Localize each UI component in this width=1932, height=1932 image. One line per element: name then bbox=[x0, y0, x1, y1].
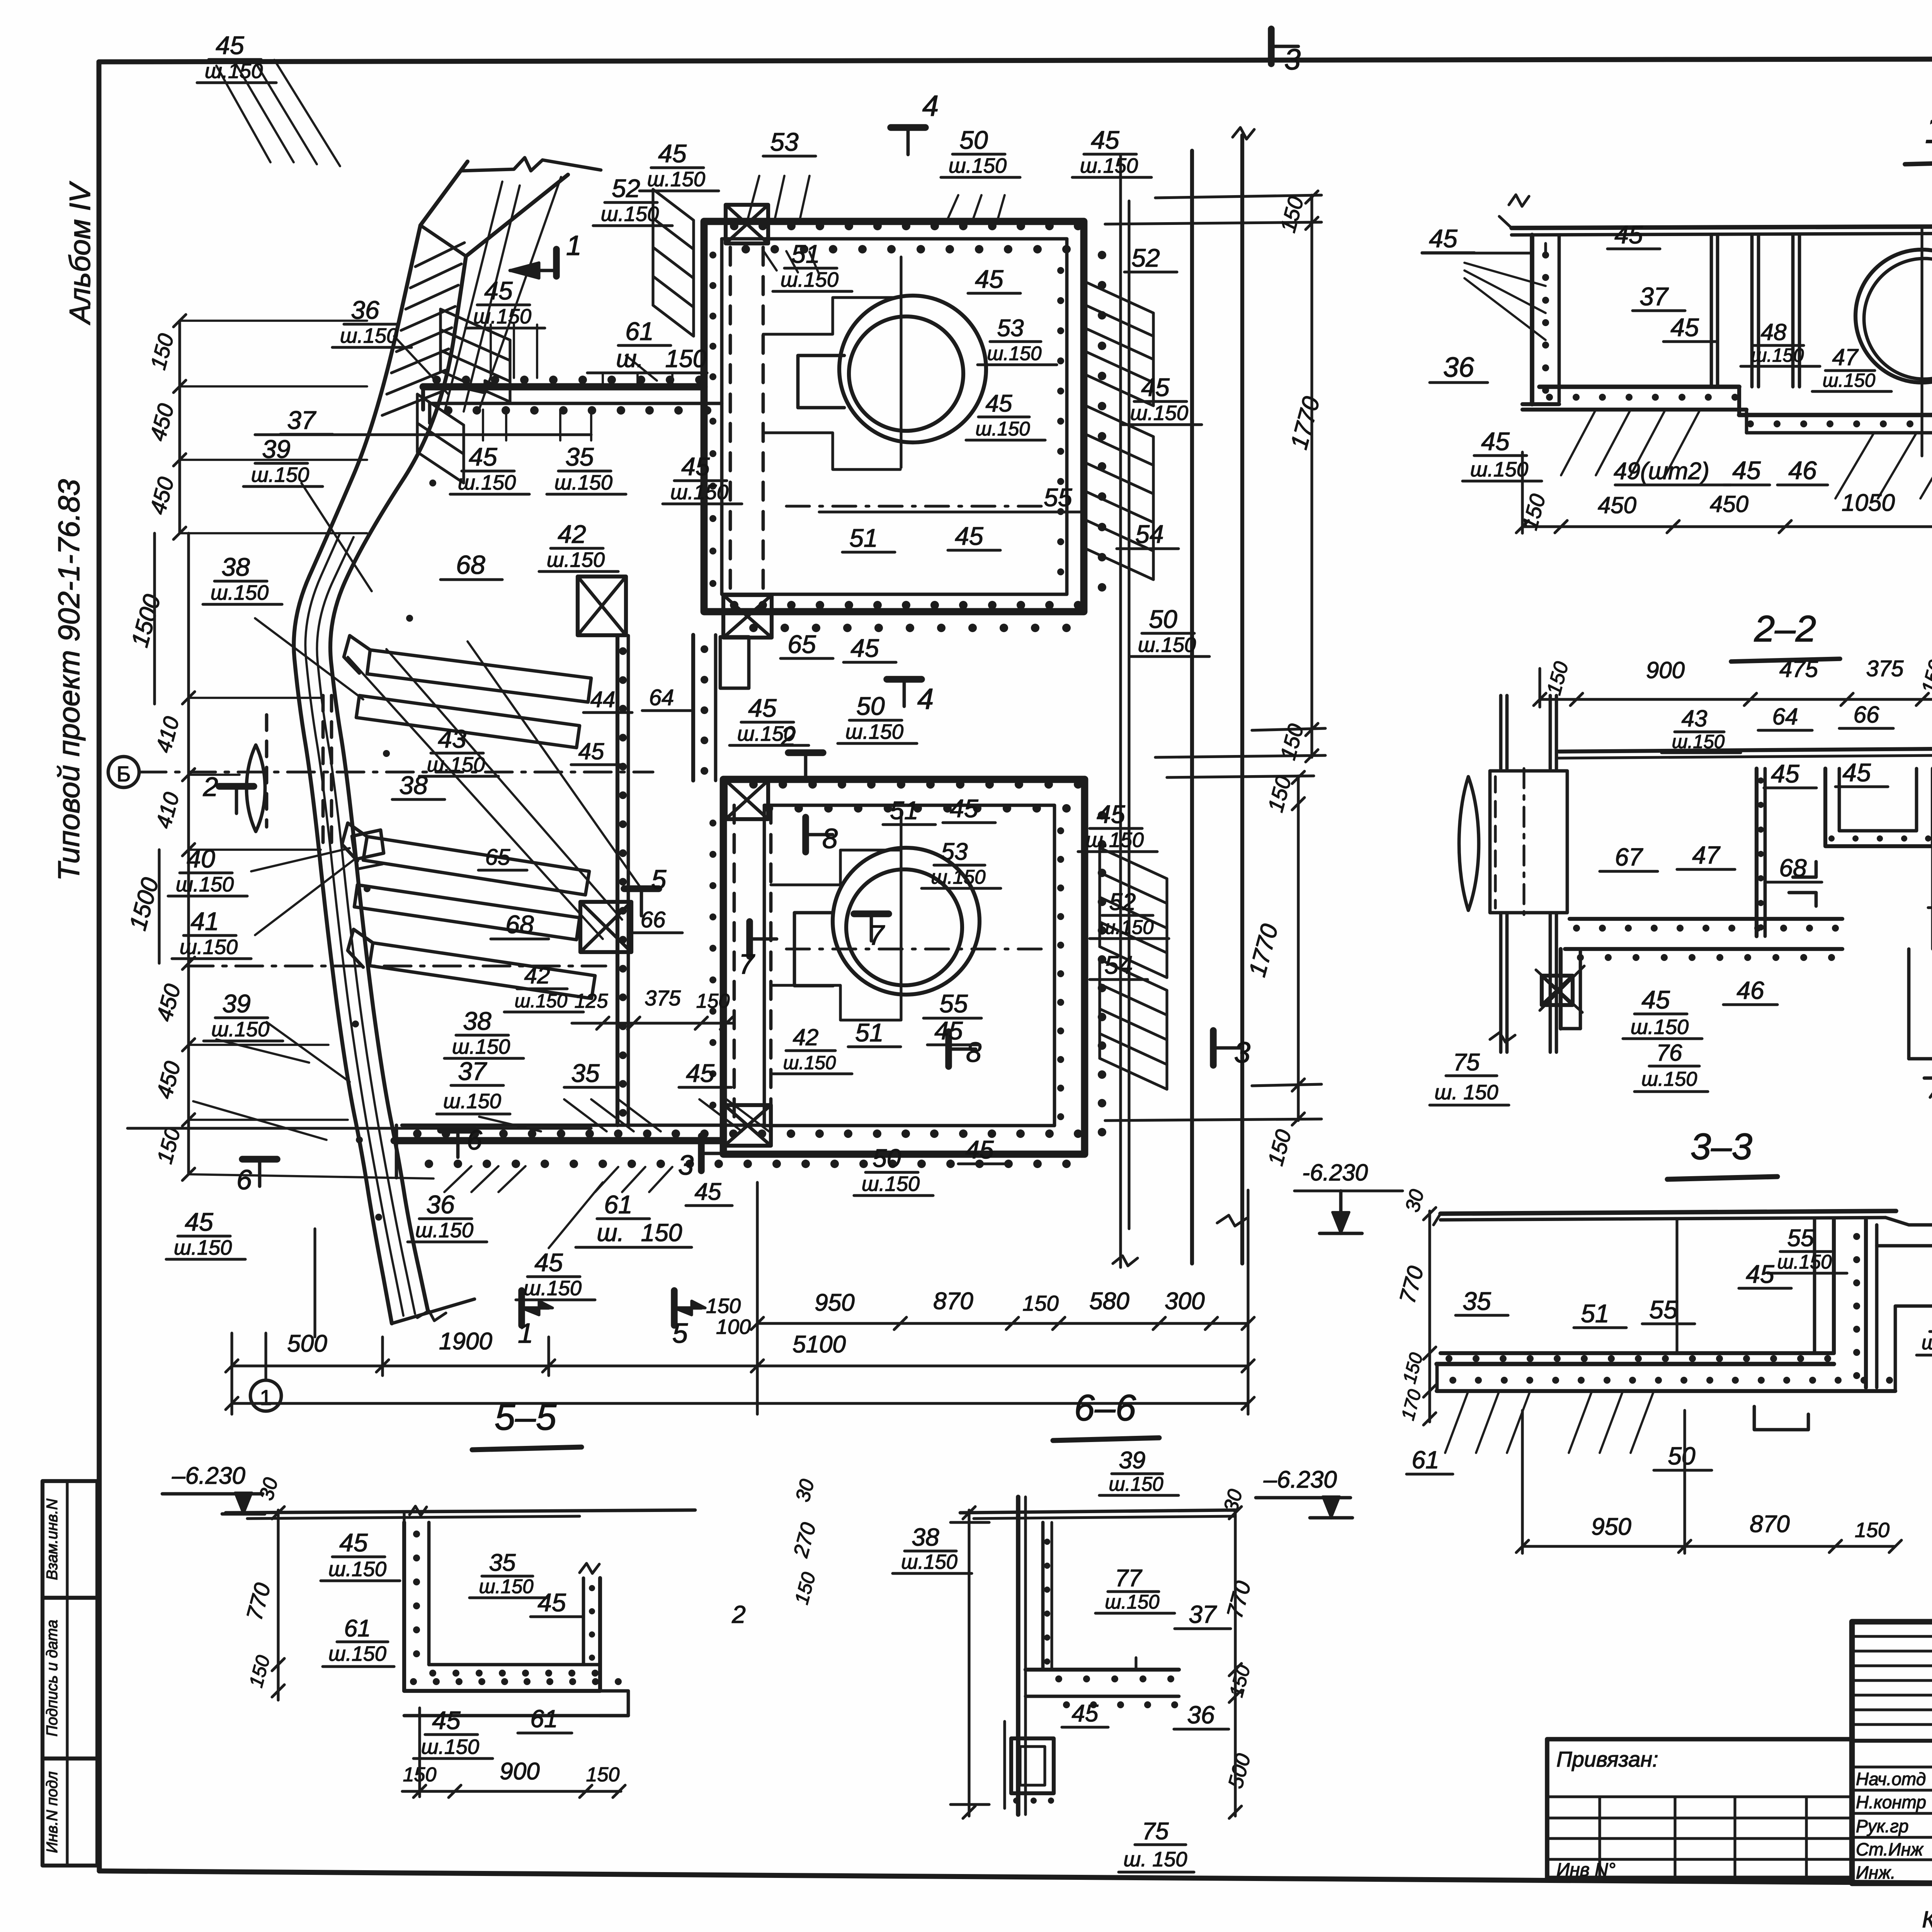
svg-text:37: 37 bbox=[1639, 282, 1669, 311]
svg-text:375: 375 bbox=[1866, 656, 1904, 681]
svg-text:45: 45 bbox=[681, 452, 710, 481]
svg-text:ш.150: ш.150 bbox=[1086, 828, 1144, 852]
svg-text:45: 45 bbox=[1097, 800, 1125, 828]
svg-text:45: 45 bbox=[658, 139, 687, 168]
svg-text:3: 3 bbox=[678, 1150, 694, 1181]
svg-text:6–6: 6–6 bbox=[1074, 1387, 1136, 1429]
svg-text:ш.150: ш.150 bbox=[524, 1277, 582, 1300]
svg-text:ш.150: ш.150 bbox=[174, 1236, 232, 1259]
svg-text:45: 45 bbox=[1746, 1260, 1774, 1288]
svg-text:Привязан:: Привязан: bbox=[1556, 1747, 1658, 1771]
svg-text:ш.150: ш.150 bbox=[328, 1642, 386, 1665]
svg-text:500: 500 bbox=[287, 1330, 327, 1357]
svg-text:52: 52 bbox=[612, 174, 640, 202]
svg-text:ш.150: ш.150 bbox=[1130, 401, 1188, 425]
svg-text:ш.150: ш.150 bbox=[328, 1558, 386, 1581]
svg-text:45: 45 bbox=[578, 738, 604, 764]
svg-text:150: 150 bbox=[665, 345, 707, 372]
svg-text:55: 55 bbox=[939, 989, 968, 1018]
svg-text:43: 43 bbox=[438, 724, 466, 753]
svg-text:50: 50 bbox=[856, 692, 885, 720]
svg-text:–6.230: –6.230 bbox=[1263, 1466, 1337, 1493]
svg-text:Рук.гр: Рук.гр bbox=[1856, 1816, 1908, 1836]
svg-text:ш.150: ш.150 bbox=[452, 1035, 510, 1058]
svg-text:ш.150: ш.150 bbox=[1080, 154, 1138, 177]
svg-text:870: 870 bbox=[933, 1288, 973, 1315]
svg-text:ш.150: ш.150 bbox=[783, 1052, 836, 1073]
svg-text:2–2: 2–2 bbox=[1754, 608, 1816, 650]
svg-text:ш.150: ш.150 bbox=[931, 866, 985, 888]
svg-text:ш. 150: ш. 150 bbox=[1435, 1081, 1498, 1104]
svg-text:45: 45 bbox=[432, 1706, 461, 1735]
svg-text:54: 54 bbox=[1104, 951, 1133, 979]
svg-text:36: 36 bbox=[426, 1190, 455, 1219]
svg-text:66: 66 bbox=[1854, 702, 1879, 728]
svg-text:ш.150: ш.150 bbox=[781, 268, 838, 291]
svg-text:6: 6 bbox=[236, 1165, 252, 1196]
svg-text:3–3: 3–3 bbox=[1690, 1126, 1752, 1167]
svg-text:52: 52 bbox=[1109, 889, 1136, 915]
svg-text:Альбом IV: Альбом IV bbox=[64, 181, 97, 325]
svg-text:53: 53 bbox=[941, 838, 968, 865]
svg-text:53: 53 bbox=[770, 128, 799, 156]
svg-text:ш.150: ш.150 bbox=[647, 168, 705, 191]
svg-text:ш.150: ш.150 bbox=[1777, 1251, 1832, 1273]
svg-text:67: 67 bbox=[1615, 843, 1643, 871]
svg-text:5: 5 bbox=[672, 1318, 688, 1349]
svg-text:38: 38 bbox=[399, 771, 428, 799]
svg-text:125: 125 bbox=[575, 990, 609, 1012]
svg-text:45: 45 bbox=[1670, 313, 1699, 342]
svg-text:42: 42 bbox=[793, 1024, 819, 1050]
svg-text:50: 50 bbox=[959, 126, 988, 154]
svg-text:ш.150: ш.150 bbox=[1109, 1473, 1163, 1495]
svg-text:38: 38 bbox=[221, 553, 250, 581]
svg-text:ш.150: ш.150 bbox=[180, 935, 238, 959]
svg-text:ш.150: ш.150 bbox=[211, 581, 269, 604]
svg-text:5: 5 bbox=[651, 864, 667, 895]
svg-text:39: 39 bbox=[222, 989, 250, 1018]
svg-text:Нач.отд: Нач.отд bbox=[1856, 1769, 1926, 1789]
svg-text:375: 375 bbox=[645, 986, 681, 1010]
svg-text:ш.150: ш.150 bbox=[949, 154, 1007, 177]
svg-text:Н.контр: Н.контр bbox=[1856, 1792, 1926, 1812]
svg-text:Подпись и дата: Подпись и дата bbox=[44, 1620, 61, 1737]
svg-text:45: 45 bbox=[1091, 126, 1119, 154]
svg-text:450: 450 bbox=[1710, 491, 1748, 517]
svg-text:45: 45 bbox=[1641, 985, 1670, 1014]
svg-text:150: 150 bbox=[1855, 1519, 1889, 1542]
svg-text:61: 61 bbox=[1412, 1446, 1439, 1474]
svg-text:Копировал: Пихарева: Копировал: Пихарева bbox=[1922, 1906, 1932, 1932]
svg-text:35: 35 bbox=[1463, 1287, 1491, 1315]
svg-text:1: 1 bbox=[566, 230, 582, 261]
svg-text:45: 45 bbox=[339, 1528, 368, 1557]
svg-text:45: 45 bbox=[537, 1588, 566, 1617]
svg-text:38: 38 bbox=[912, 1523, 939, 1551]
svg-text:8: 8 bbox=[822, 823, 838, 854]
svg-text:ш.150: ш.150 bbox=[975, 418, 1030, 440]
svg-text:Инв N°: Инв N° bbox=[1556, 1860, 1616, 1880]
svg-text:38: 38 bbox=[463, 1007, 492, 1035]
svg-text:2: 2 bbox=[731, 1600, 746, 1628]
svg-text:37: 37 bbox=[1189, 1600, 1217, 1628]
svg-text:45: 45 bbox=[950, 794, 978, 823]
svg-text:ш.150: ш.150 bbox=[987, 342, 1041, 364]
svg-text:45: 45 bbox=[469, 442, 497, 471]
svg-text:68: 68 bbox=[1779, 854, 1807, 882]
svg-text:8: 8 bbox=[966, 1037, 981, 1068]
svg-text:ш.150: ш.150 bbox=[1631, 1015, 1689, 1039]
svg-text:46: 46 bbox=[1788, 456, 1817, 485]
svg-text:52: 52 bbox=[1131, 243, 1160, 272]
svg-text:45: 45 bbox=[484, 276, 513, 305]
svg-text:66: 66 bbox=[641, 907, 666, 932]
svg-text:ш.150: ш.150 bbox=[1099, 916, 1153, 938]
svg-text:50: 50 bbox=[1149, 605, 1177, 633]
svg-text:1–1: 1–1 bbox=[1925, 108, 1932, 151]
svg-text:68: 68 bbox=[456, 550, 485, 580]
svg-text:ш.150: ш.150 bbox=[1922, 1332, 1932, 1354]
svg-text:ш.150: ш.150 bbox=[1105, 1591, 1159, 1613]
svg-text:150: 150 bbox=[641, 1219, 682, 1247]
svg-text:1900: 1900 bbox=[439, 1328, 492, 1355]
svg-text:150: 150 bbox=[696, 990, 730, 1012]
svg-text:35: 35 bbox=[565, 442, 594, 471]
svg-text:ш.150: ш.150 bbox=[479, 1575, 533, 1597]
svg-text:45: 45 bbox=[986, 390, 1012, 417]
svg-text:1: 1 bbox=[518, 1318, 533, 1349]
svg-text:45: 45 bbox=[216, 31, 244, 60]
svg-text:ш.150: ш.150 bbox=[205, 60, 263, 83]
svg-text:300: 300 bbox=[1165, 1288, 1204, 1315]
svg-text:45: 45 bbox=[1732, 456, 1761, 485]
svg-text:4: 4 bbox=[917, 683, 934, 716]
svg-text:ш.: ш. bbox=[616, 345, 644, 372]
svg-text:ш.150: ш.150 bbox=[1823, 370, 1876, 391]
svg-text:45: 45 bbox=[185, 1207, 213, 1236]
svg-text:2: 2 bbox=[203, 772, 218, 802]
svg-text:ш.150: ш.150 bbox=[845, 720, 903, 743]
svg-text:ш.150: ш.150 bbox=[427, 753, 485, 776]
svg-text:36: 36 bbox=[351, 296, 379, 324]
svg-text:44: 44 bbox=[590, 687, 616, 712]
svg-text:61: 61 bbox=[604, 1190, 632, 1219]
svg-text:45: 45 bbox=[1771, 759, 1799, 788]
svg-text:Типовой проект 902-1-76.83: Типовой проект 902-1-76.83 bbox=[52, 479, 86, 881]
svg-text:45: 45 bbox=[748, 694, 777, 722]
svg-text:46: 46 bbox=[1736, 976, 1764, 1004]
svg-text:ш.150: ш.150 bbox=[601, 202, 659, 226]
svg-text:950: 950 bbox=[1591, 1514, 1631, 1540]
svg-text:50: 50 bbox=[1668, 1442, 1696, 1470]
svg-text:37: 37 bbox=[287, 406, 316, 434]
svg-text:ш.150: ш.150 bbox=[670, 481, 728, 504]
svg-text:39: 39 bbox=[1119, 1447, 1146, 1474]
svg-text:61: 61 bbox=[625, 317, 653, 345]
svg-text:7: 7 bbox=[739, 949, 755, 980]
svg-text:950: 950 bbox=[815, 1289, 854, 1316]
svg-text:37: 37 bbox=[458, 1057, 487, 1085]
svg-text:35: 35 bbox=[571, 1059, 600, 1087]
svg-text:870: 870 bbox=[1750, 1511, 1789, 1537]
svg-text:1050: 1050 bbox=[1842, 490, 1895, 516]
svg-text:77: 77 bbox=[1115, 1565, 1143, 1592]
svg-text:40: 40 bbox=[187, 844, 215, 873]
svg-text:ш.150: ш.150 bbox=[1470, 458, 1528, 481]
svg-text:45: 45 bbox=[1614, 220, 1643, 249]
svg-text:55: 55 bbox=[1044, 483, 1072, 512]
svg-text:45: 45 bbox=[965, 1135, 994, 1164]
svg-text:45: 45 bbox=[534, 1248, 563, 1277]
svg-text:150: 150 bbox=[1022, 1291, 1058, 1315]
svg-text:ш.150: ш.150 bbox=[554, 471, 612, 494]
svg-text:55: 55 bbox=[1649, 1295, 1678, 1324]
svg-text:ш.150: ш.150 bbox=[473, 305, 531, 328]
svg-text:Б: Б bbox=[117, 762, 131, 786]
svg-text:ш.150: ш.150 bbox=[515, 990, 568, 1012]
svg-text:53: 53 bbox=[997, 315, 1024, 342]
svg-text:45: 45 bbox=[850, 634, 879, 662]
svg-text:61: 61 bbox=[344, 1615, 371, 1642]
svg-text:76: 76 bbox=[1656, 1040, 1682, 1066]
svg-text:41: 41 bbox=[190, 907, 219, 935]
svg-text:ш.150: ш.150 bbox=[1138, 633, 1196, 656]
svg-text:39: 39 bbox=[262, 435, 290, 463]
svg-text:150: 150 bbox=[586, 1764, 620, 1786]
svg-text:ш.150: ш.150 bbox=[1641, 1068, 1697, 1090]
svg-text:580: 580 bbox=[1089, 1288, 1129, 1315]
svg-text:ш.150: ш.150 bbox=[176, 873, 234, 896]
svg-text:Инв.N подл: Инв.N подл bbox=[44, 1771, 61, 1853]
svg-text:7: 7 bbox=[869, 920, 885, 951]
svg-text:49(шт2): 49(шт2) bbox=[1614, 458, 1709, 485]
svg-text:65: 65 bbox=[485, 845, 510, 870]
svg-text:47: 47 bbox=[1832, 344, 1859, 370]
svg-text:ш. 150: ш. 150 bbox=[1124, 1848, 1187, 1871]
svg-text:45: 45 bbox=[1481, 427, 1510, 456]
svg-text:ш.150: ш.150 bbox=[421, 1735, 479, 1759]
svg-text:ш.150: ш.150 bbox=[211, 1018, 269, 1041]
svg-text:900: 900 bbox=[500, 1758, 539, 1785]
svg-text:150: 150 bbox=[706, 1294, 741, 1318]
svg-text:48: 48 bbox=[1761, 319, 1787, 345]
svg-text:100: 100 bbox=[716, 1315, 751, 1338]
svg-text:-6.230: -6.230 bbox=[1302, 1160, 1368, 1185]
svg-text:54: 54 bbox=[1135, 520, 1163, 548]
svg-text:ш.150: ш.150 bbox=[737, 722, 795, 745]
svg-text:51: 51 bbox=[890, 796, 918, 825]
svg-text:5100: 5100 bbox=[793, 1331, 846, 1358]
svg-text:Взам.инв.N: Взам.инв.N bbox=[44, 1499, 61, 1580]
svg-text:ш.150: ш.150 bbox=[901, 1551, 957, 1573]
svg-text:45: 45 bbox=[975, 265, 1003, 293]
svg-text:3: 3 bbox=[1234, 1036, 1250, 1069]
svg-text:61: 61 bbox=[530, 1705, 558, 1733]
svg-text:45: 45 bbox=[686, 1059, 714, 1087]
svg-text:42: 42 bbox=[558, 520, 586, 548]
svg-text:ш.150: ш.150 bbox=[458, 471, 516, 494]
svg-text:ш.: ш. bbox=[597, 1219, 624, 1247]
svg-text:1: 1 bbox=[260, 1385, 272, 1410]
svg-text:45: 45 bbox=[695, 1179, 721, 1205]
svg-text:ш.150: ш.150 bbox=[862, 1172, 920, 1196]
svg-text:35: 35 bbox=[489, 1549, 516, 1576]
svg-text:45: 45 bbox=[1072, 1700, 1099, 1727]
svg-text:ш.150: ш.150 bbox=[443, 1090, 501, 1113]
svg-text:ш.150: ш.150 bbox=[547, 548, 605, 571]
svg-text:36: 36 bbox=[1187, 1701, 1215, 1729]
svg-text:475: 475 bbox=[1779, 656, 1818, 682]
svg-text:45: 45 bbox=[1141, 373, 1170, 401]
svg-text:43: 43 bbox=[1682, 706, 1708, 731]
svg-text:68: 68 bbox=[505, 910, 534, 939]
svg-text:450: 450 bbox=[1598, 492, 1636, 518]
svg-text:ш.150: ш.150 bbox=[340, 324, 398, 347]
svg-text:64: 64 bbox=[649, 685, 674, 710]
svg-text:3: 3 bbox=[1284, 43, 1301, 76]
svg-text:45: 45 bbox=[934, 1016, 963, 1045]
svg-text:4: 4 bbox=[922, 90, 939, 122]
svg-text:ш.150: ш.150 bbox=[251, 463, 309, 486]
svg-text:ш.150: ш.150 bbox=[1751, 345, 1804, 366]
svg-text:45: 45 bbox=[1842, 758, 1871, 787]
svg-text:5–5: 5–5 bbox=[495, 1396, 557, 1438]
svg-text:51: 51 bbox=[849, 524, 878, 552]
svg-text:51: 51 bbox=[1581, 1299, 1609, 1328]
svg-text:42: 42 bbox=[524, 963, 550, 988]
svg-text:65: 65 bbox=[787, 630, 816, 658]
svg-text:50: 50 bbox=[872, 1144, 901, 1172]
svg-text:ш.150: ш.150 bbox=[415, 1219, 473, 1242]
svg-text:47: 47 bbox=[1692, 841, 1721, 869]
svg-text:75: 75 bbox=[1142, 1818, 1169, 1845]
svg-text:–6.230: –6.230 bbox=[172, 1463, 245, 1489]
svg-text:Инж.: Инж. bbox=[1856, 1862, 1896, 1883]
svg-text:75: 75 bbox=[1453, 1049, 1480, 1076]
svg-text:45: 45 bbox=[955, 522, 983, 550]
svg-text:55: 55 bbox=[1787, 1225, 1814, 1252]
svg-text:900: 900 bbox=[1646, 657, 1685, 683]
svg-text:36: 36 bbox=[1443, 352, 1475, 383]
svg-text:45: 45 bbox=[1429, 224, 1458, 253]
svg-text:51: 51 bbox=[855, 1018, 883, 1047]
svg-text:Ст.Инж: Ст.Инж bbox=[1856, 1839, 1924, 1859]
svg-text:64: 64 bbox=[1772, 704, 1798, 730]
